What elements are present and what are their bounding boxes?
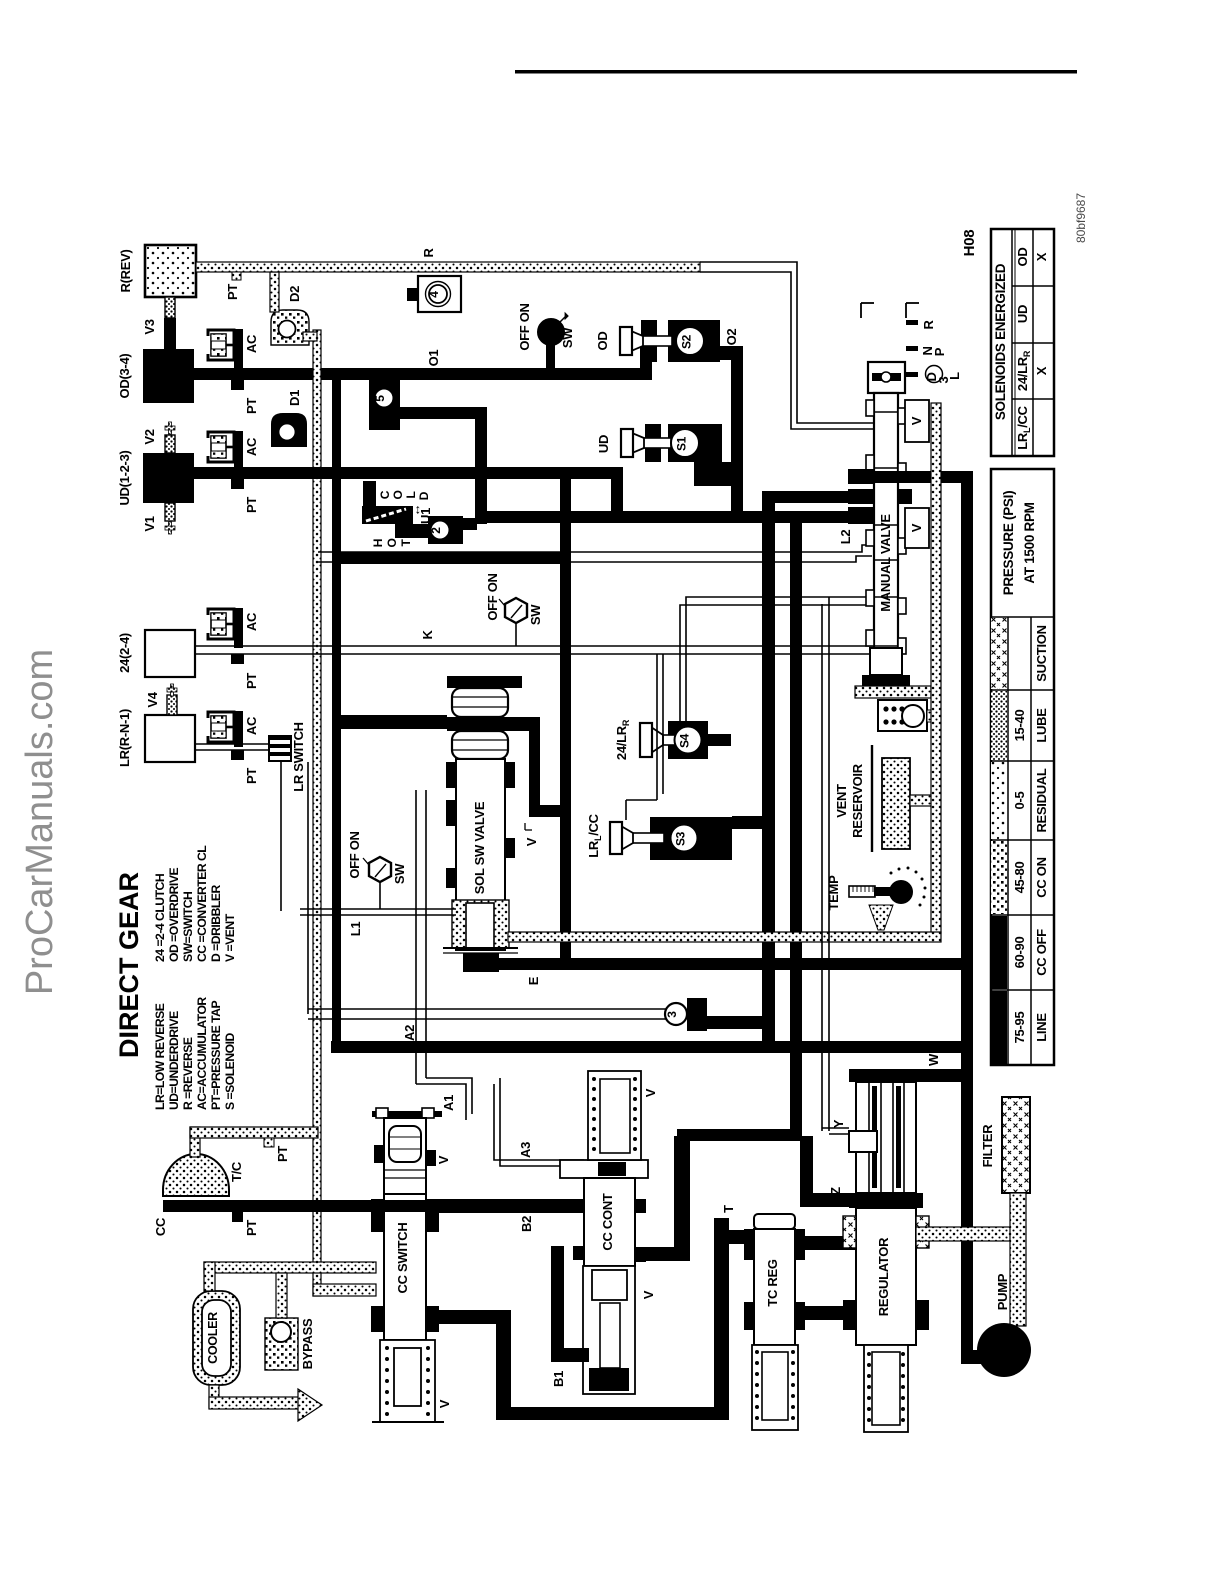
svg-text:D2: D2	[287, 286, 302, 302]
table SOLENOIDS ENERGIZED	[991, 229, 1054, 456]
accumulator AC3	[208, 608, 259, 689]
dribbler D1	[271, 390, 307, 447]
svg-text:V: V	[524, 837, 539, 846]
svg-text:V2: V2	[142, 429, 157, 444]
wire upper cross bar	[334, 552, 567, 564]
legend text	[153, 845, 237, 1110]
clutch LR(R-N-1)	[117, 709, 195, 767]
svg-text:COOLER: COOLER	[206, 1312, 220, 1364]
wire S3 bar	[732, 816, 775, 829]
switch LR SWITCH	[268, 722, 306, 792]
svg-text:OFF ON: OFF ON	[347, 831, 362, 878]
svg-text:D =DRIBBLER: D =DRIBBLER	[209, 885, 223, 962]
svg-text:W: W	[926, 1053, 941, 1066]
vent V3	[142, 297, 176, 350]
stipple line right vertical	[931, 403, 941, 933]
svg-text:D1: D1	[287, 390, 302, 406]
accumulator AC2	[208, 431, 259, 513]
svg-text:V: V	[437, 1399, 452, 1408]
accumulator AC1	[208, 329, 259, 414]
wire right risers	[762, 497, 802, 1136]
svg-text:A3: A3	[518, 1142, 533, 1158]
solenoid S4	[614, 719, 731, 760]
svg-text:D: D	[417, 491, 431, 500]
svg-text:LRL/CC: LRL/CC	[586, 813, 603, 857]
svg-text:PT: PT	[244, 1220, 259, 1236]
svg-text:LINE: LINE	[1034, 1013, 1049, 1042]
valve CC CONT	[560, 1071, 658, 1394]
converter T/C	[163, 1154, 244, 1196]
svg-text:V: V	[643, 1088, 658, 1097]
svg-text:REGULATOR: REGULATOR	[876, 1237, 891, 1316]
vent V1	[142, 503, 175, 534]
wire A3 branch	[494, 1078, 584, 1166]
checkball 3	[665, 998, 765, 1031]
svg-text:UD(1-2-3): UD(1-2-3)	[117, 450, 132, 505]
svg-text:60-90: 60-90	[1012, 937, 1027, 969]
svg-text:24 =2-4 CLUTCH: 24 =2-4 CLUTCH	[153, 874, 167, 962]
svg-text:OFF ON: OFF ON	[485, 573, 500, 620]
part number 80bf9687	[1074, 193, 1088, 243]
svg-text:V3: V3	[142, 319, 157, 334]
svg-text:↔: ↔	[408, 504, 423, 517]
svg-text:T: T	[399, 539, 413, 547]
vent V2	[142, 422, 175, 453]
solenoid S1	[596, 424, 736, 486]
svg-text:SOLENOIDS ENERGIZED: SOLENOIDS ENERGIZED	[993, 263, 1008, 420]
svg-text:CC OFF: CC OFF	[1034, 929, 1049, 976]
svg-text:H08: H08	[961, 230, 978, 257]
svg-text:E: E	[526, 976, 541, 985]
svg-text:V1: V1	[142, 516, 157, 531]
svg-text:75-95: 75-95	[1012, 1012, 1027, 1044]
svg-text:OD: OD	[1015, 248, 1030, 267]
svg-text:0-5: 0-5	[1012, 791, 1027, 809]
wire W link	[921, 1053, 962, 1082]
wire U1 line	[194, 467, 623, 524]
svg-text:K: K	[420, 630, 435, 640]
wire vertical from 5	[475, 407, 487, 524]
svg-text:R(REV): R(REV)	[118, 250, 133, 293]
svg-text:CC: CC	[153, 1217, 168, 1236]
wire S3 feed	[626, 654, 663, 820]
port manual valve left	[848, 469, 912, 524]
clutch OD(3-4)	[117, 349, 194, 403]
wire suction line	[916, 1227, 1016, 1241]
wire CC line	[153, 1200, 584, 1236]
switch SW3	[347, 831, 407, 909]
svg-text:PT=PRESSURE TAP: PT=PRESSURE TAP	[209, 1001, 223, 1110]
svg-text:O: O	[391, 490, 405, 499]
svg-text:TC REG: TC REG	[765, 1259, 780, 1307]
svg-text:4: 4	[427, 291, 441, 298]
svg-text:LR(R-N-1): LR(R-N-1)	[117, 709, 132, 767]
wire O1 line	[194, 340, 652, 380]
wire bottom bar	[496, 1205, 736, 1420]
wire upper bar to valve	[762, 491, 864, 503]
wire L2 line	[318, 530, 872, 562]
svg-text:ProCarManuals.com: ProCarManuals.com	[19, 649, 61, 995]
svg-text:CC CONT: CC CONT	[600, 1193, 615, 1250]
svg-text:CC ON: CC ON	[1034, 857, 1049, 897]
svg-text:AC=ACCUMULATOR: AC=ACCUMULATOR	[195, 997, 209, 1110]
svg-text:B2: B2	[519, 1216, 534, 1232]
svg-text:T/C: T/C	[229, 1161, 244, 1182]
valve REGULATOR	[828, 1069, 929, 1432]
svg-text:80bf9687: 80bf9687	[1074, 193, 1088, 243]
svg-text:T: T	[721, 1205, 736, 1213]
stipple line filter-pump	[1010, 1193, 1026, 1326]
wire right main riser	[961, 471, 973, 1360]
svg-text:B1: B1	[551, 1371, 566, 1387]
svg-text:L2: L2	[838, 530, 853, 545]
wire E line	[463, 958, 973, 985]
reservoir VENT RESERVOIR	[834, 745, 933, 852]
wire A1 branch	[416, 1078, 472, 1120]
svg-text:P: P	[932, 347, 947, 356]
svg-text:PT: PT	[244, 768, 259, 784]
svg-text:L: L	[404, 491, 418, 498]
svg-text:SW=SWITCH: SW=SWITCH	[181, 892, 195, 962]
svg-text:2: 2	[429, 527, 443, 534]
accumulator AC4	[208, 711, 259, 784]
lube element	[878, 700, 934, 731]
svg-text:CC SWITCH: CC SWITCH	[395, 1223, 410, 1294]
clutch UD(1-2-3)	[117, 450, 194, 505]
svg-text:AC: AC	[244, 437, 259, 456]
svg-text:S =SOLENOID: S =SOLENOID	[223, 1033, 237, 1110]
svg-text:S3: S3	[674, 831, 688, 846]
svg-text:R: R	[921, 320, 936, 330]
svg-text:LR=LOW REVERSE: LR=LOW REVERSE	[153, 1003, 167, 1110]
svg-text:PT: PT	[244, 398, 259, 414]
svg-text:UD: UD	[596, 435, 611, 453]
svg-text:PRESSURE (PSI): PRESSURE (PSI)	[1001, 491, 1016, 596]
title DIRECT GEAR	[114, 872, 144, 1058]
wire vertical bus	[332, 374, 341, 1052]
wire S4 feed	[680, 597, 868, 721]
wire bar A	[331, 1025, 962, 1053]
svg-text:A1: A1	[441, 1095, 456, 1111]
svg-text:OD =OVERDRIVE: OD =OVERDRIVE	[167, 868, 181, 962]
filter FILTER	[980, 1097, 1030, 1193]
wire B2 line	[437, 1199, 573, 1232]
svg-text:L1: L1	[348, 922, 363, 937]
svg-text:45-80: 45-80	[1012, 862, 1027, 894]
svg-text:PT: PT	[225, 284, 240, 300]
svg-text:AC: AC	[244, 612, 259, 631]
svg-text:24(2-4): 24(2-4)	[117, 633, 132, 673]
wire bar B	[635, 1129, 802, 1261]
svg-text:3: 3	[665, 1011, 679, 1018]
wire A2 pair	[416, 790, 426, 1084]
wire LR drop lines	[281, 762, 308, 1014]
bypass BYPASS	[265, 1318, 315, 1370]
svg-text:X: X	[1034, 366, 1049, 375]
wire lines to ball 3	[308, 1009, 666, 1019]
switch SW2	[485, 573, 543, 646]
svg-text:RESIDUAL: RESIDUAL	[1034, 768, 1049, 832]
svg-text:SW: SW	[560, 327, 575, 348]
svg-text:V: V	[641, 1290, 656, 1299]
svg-text:V4: V4	[145, 691, 160, 707]
svg-text:OD(3-4): OD(3-4)	[117, 354, 132, 399]
svg-text:R: R	[421, 248, 436, 258]
wire mid riser	[560, 474, 571, 965]
svg-text:AT 1500 RPM: AT 1500 RPM	[1022, 502, 1037, 583]
svg-text:PUMP: PUMP	[995, 1273, 1010, 1310]
stipple line cooler circuit	[204, 1262, 376, 1421]
svg-text:SUCTION: SUCTION	[1034, 625, 1049, 681]
svg-text:S4: S4	[678, 733, 692, 748]
svg-text:15-40: 15-40	[1012, 710, 1027, 742]
valve SOL SW VALVE	[443, 676, 540, 972]
svg-text:FILTER: FILTER	[980, 1124, 995, 1168]
label H08	[961, 230, 978, 257]
svg-text:V: V	[909, 416, 924, 425]
wire valve right wing	[510, 717, 567, 817]
svg-text:SW: SW	[528, 604, 543, 625]
wire Y feed	[822, 597, 849, 1134]
svg-text:UD=UNDERDRIVE: UD=UNDERDRIVE	[167, 1011, 181, 1110]
svg-text:LR SWITCH: LR SWITCH	[291, 722, 306, 792]
table PRESSURE (PSI) AT 1500 RPM	[991, 469, 1054, 1065]
svg-text:PT: PT	[244, 497, 259, 513]
header rule	[515, 70, 1077, 74]
svg-text:V: V	[436, 1155, 451, 1164]
valve CC SWITCH	[371, 1108, 452, 1422]
valve MANUAL VALVE	[855, 303, 962, 698]
svg-text:SW: SW	[392, 863, 407, 884]
svg-text:H: H	[371, 539, 385, 547]
svg-text:LUBE: LUBE	[1034, 708, 1049, 743]
wire B1 branch	[551, 1246, 589, 1387]
stipple line vertical main	[270, 272, 321, 1296]
wire manual valve out right	[868, 471, 973, 483]
valve TC REG	[729, 1214, 805, 1430]
svg-text:PT: PT	[275, 1146, 290, 1162]
svg-text:L: L	[947, 372, 962, 380]
dribbler D2	[271, 286, 309, 345]
watermark ProCarManuals.com	[19, 649, 61, 995]
svg-text:V =VENT: V =VENT	[223, 913, 237, 962]
svg-text:AC: AC	[244, 334, 259, 353]
svg-text:RESERVOIR: RESERVOIR	[850, 763, 865, 838]
wire CC lower bar	[429, 1310, 511, 1420]
svg-text:PT: PT	[244, 673, 259, 689]
clutch R(REV)	[118, 245, 196, 297]
svg-text:O: O	[385, 538, 399, 547]
solenoid S2	[595, 320, 743, 362]
svg-text:Z: Z	[828, 1187, 843, 1195]
svg-text:LRL/CC: LRL/CC	[1015, 405, 1032, 449]
wire valve feed bar	[336, 715, 447, 729]
wire Z link	[800, 1136, 866, 1207]
svg-text:UD: UD	[1015, 305, 1030, 323]
svg-text:AC: AC	[244, 716, 259, 735]
svg-text:V: V	[909, 523, 924, 532]
cooler COOLER	[193, 1291, 240, 1385]
svg-text:S2: S2	[680, 334, 694, 349]
svg-text:O2: O2	[724, 329, 739, 346]
sensor TEMP	[826, 867, 927, 931]
clutch 24(2-4)	[117, 630, 195, 677]
svg-text:S1: S1	[675, 436, 689, 451]
wire R loop to manual valve	[700, 262, 875, 429]
solenoid S3	[586, 813, 732, 860]
stipple line TC branch	[190, 1127, 318, 1162]
svg-text:VENT: VENT	[834, 784, 849, 818]
wire long bar mid	[475, 511, 876, 523]
svg-text:DIRECT GEAR: DIRECT GEAR	[114, 872, 144, 1058]
switch SW1	[517, 303, 575, 372]
wire S1S2 riser	[731, 355, 743, 523]
svg-text:C: C	[378, 490, 392, 499]
thermal valve HOT/COLD	[362, 481, 477, 548]
svg-text:5: 5	[373, 395, 387, 402]
wire LR line	[195, 744, 270, 750]
svg-text:Y: Y	[831, 1119, 846, 1128]
svg-text:OD: OD	[595, 332, 610, 351]
svg-text:CC =CONVERTER CL: CC =CONVERTER CL	[195, 845, 209, 962]
wire R dotted line	[196, 248, 700, 300]
svg-text:A2: A2	[402, 1025, 417, 1041]
wire L1 line	[300, 909, 456, 936]
svg-text:OFF ON: OFF ON	[517, 303, 532, 350]
stipple line bottom horizontal	[508, 932, 941, 942]
vent V4	[145, 684, 177, 715]
svg-text:O1: O1	[426, 350, 441, 367]
svg-text:MANUAL VALVE: MANUAL VALVE	[878, 514, 893, 612]
svg-text:BYPASS: BYPASS	[300, 1318, 315, 1369]
svg-text:SOL SW VALVE: SOL SW VALVE	[472, 801, 487, 894]
checkball 4	[407, 276, 461, 312]
wire TCREG-REG links	[805, 1236, 866, 1320]
svg-text:R =REVERSE: R =REVERSE	[181, 1037, 195, 1110]
checkball 5	[369, 380, 487, 430]
svg-text:X: X	[1034, 252, 1049, 261]
pump PUMP	[961, 1273, 1031, 1377]
wire K line	[195, 630, 900, 654]
